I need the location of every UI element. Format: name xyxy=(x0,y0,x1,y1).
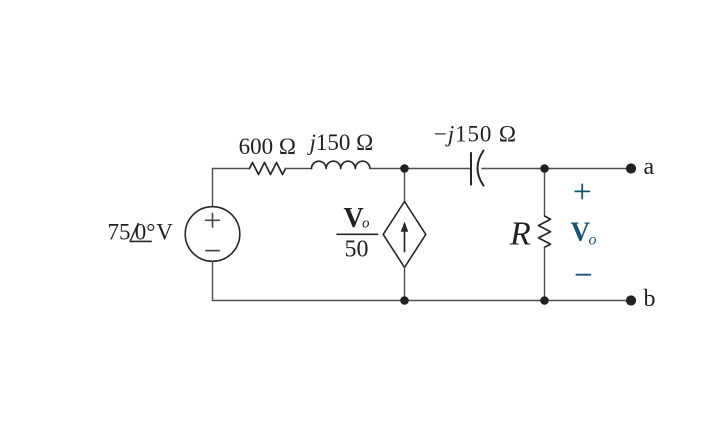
svg-text:−j150 Ω: −j150 Ω xyxy=(434,122,517,147)
terminal b dot xyxy=(626,295,636,305)
wire: left vertical top (source to top rail) xyxy=(212,169,214,208)
wire: R bottom lead xyxy=(544,247,546,300)
voltage source plus sign xyxy=(206,214,220,228)
wire: top-left segment from source to resistor xyxy=(213,168,250,170)
svg-text:b: b xyxy=(644,286,656,312)
dependent current source U1 Vo/50 (diamond) xyxy=(383,202,426,268)
svg-text:V: V xyxy=(571,217,591,247)
node junction dot at bottom of dependent source xyxy=(400,296,409,305)
wire: dependent source top lead xyxy=(404,169,406,202)
label 600 ohm xyxy=(239,134,296,159)
svg-text:V: V xyxy=(344,203,364,234)
wire: dependent source bottom lead xyxy=(404,267,406,300)
capacitor C1 -j150 ohm (left plate) xyxy=(470,153,472,185)
svg-text:600 Ω: 600 Ω xyxy=(239,134,296,159)
wire: R top lead xyxy=(544,169,546,217)
wire: inductor to node A xyxy=(370,168,471,170)
label Vo (output voltage, blue) xyxy=(571,217,597,249)
label 75 angle 0 V (phasor) xyxy=(108,220,174,245)
svg-text:j150 Ω: j150 Ω xyxy=(307,130,374,155)
node junction dot at top of dependent source xyxy=(400,164,409,173)
wire: left vertical bottom (source to bottom rail) xyxy=(212,261,214,300)
terminal a dot xyxy=(626,163,636,173)
svg-text:o: o xyxy=(362,216,370,232)
wire: capacitor to node B xyxy=(482,168,545,170)
resistor R1 600 ohm (zigzag) xyxy=(250,163,286,175)
node junction dot at top of R xyxy=(540,164,549,173)
capacitor C1 -j150 ohm (right curved plate) xyxy=(478,151,484,186)
label R xyxy=(509,216,531,253)
node junction dot at bottom of R xyxy=(540,296,549,305)
dependent source arrow (up) xyxy=(401,222,409,252)
wire: bottom rail xyxy=(213,300,632,302)
label Vo/50 (fraction) xyxy=(337,203,378,263)
svg-text:a: a xyxy=(644,154,655,180)
svg-text:R: R xyxy=(509,216,531,253)
inductor L1 j150 ohm (4 humps) xyxy=(312,161,370,168)
svg-text:o: o xyxy=(589,232,597,249)
wire: between resistor and inductor xyxy=(286,168,312,170)
label a xyxy=(644,154,655,180)
voltage source Vs 75 angle 0 V (circle) xyxy=(185,207,240,262)
wire: node B to terminal a xyxy=(545,168,632,170)
label -j150 ohm xyxy=(434,122,517,147)
voltage source minus sign xyxy=(206,250,219,252)
svg-text:75: 75 xyxy=(108,220,131,245)
label - (polarity of Vo, blue) xyxy=(576,274,590,276)
label j150 ohm xyxy=(307,130,374,155)
resistor R (vertical zigzag) xyxy=(539,216,551,247)
label b xyxy=(644,286,656,312)
label + (polarity of Vo, blue) xyxy=(575,184,589,198)
svg-text:V: V xyxy=(156,220,173,245)
svg-text:50: 50 xyxy=(345,237,369,263)
